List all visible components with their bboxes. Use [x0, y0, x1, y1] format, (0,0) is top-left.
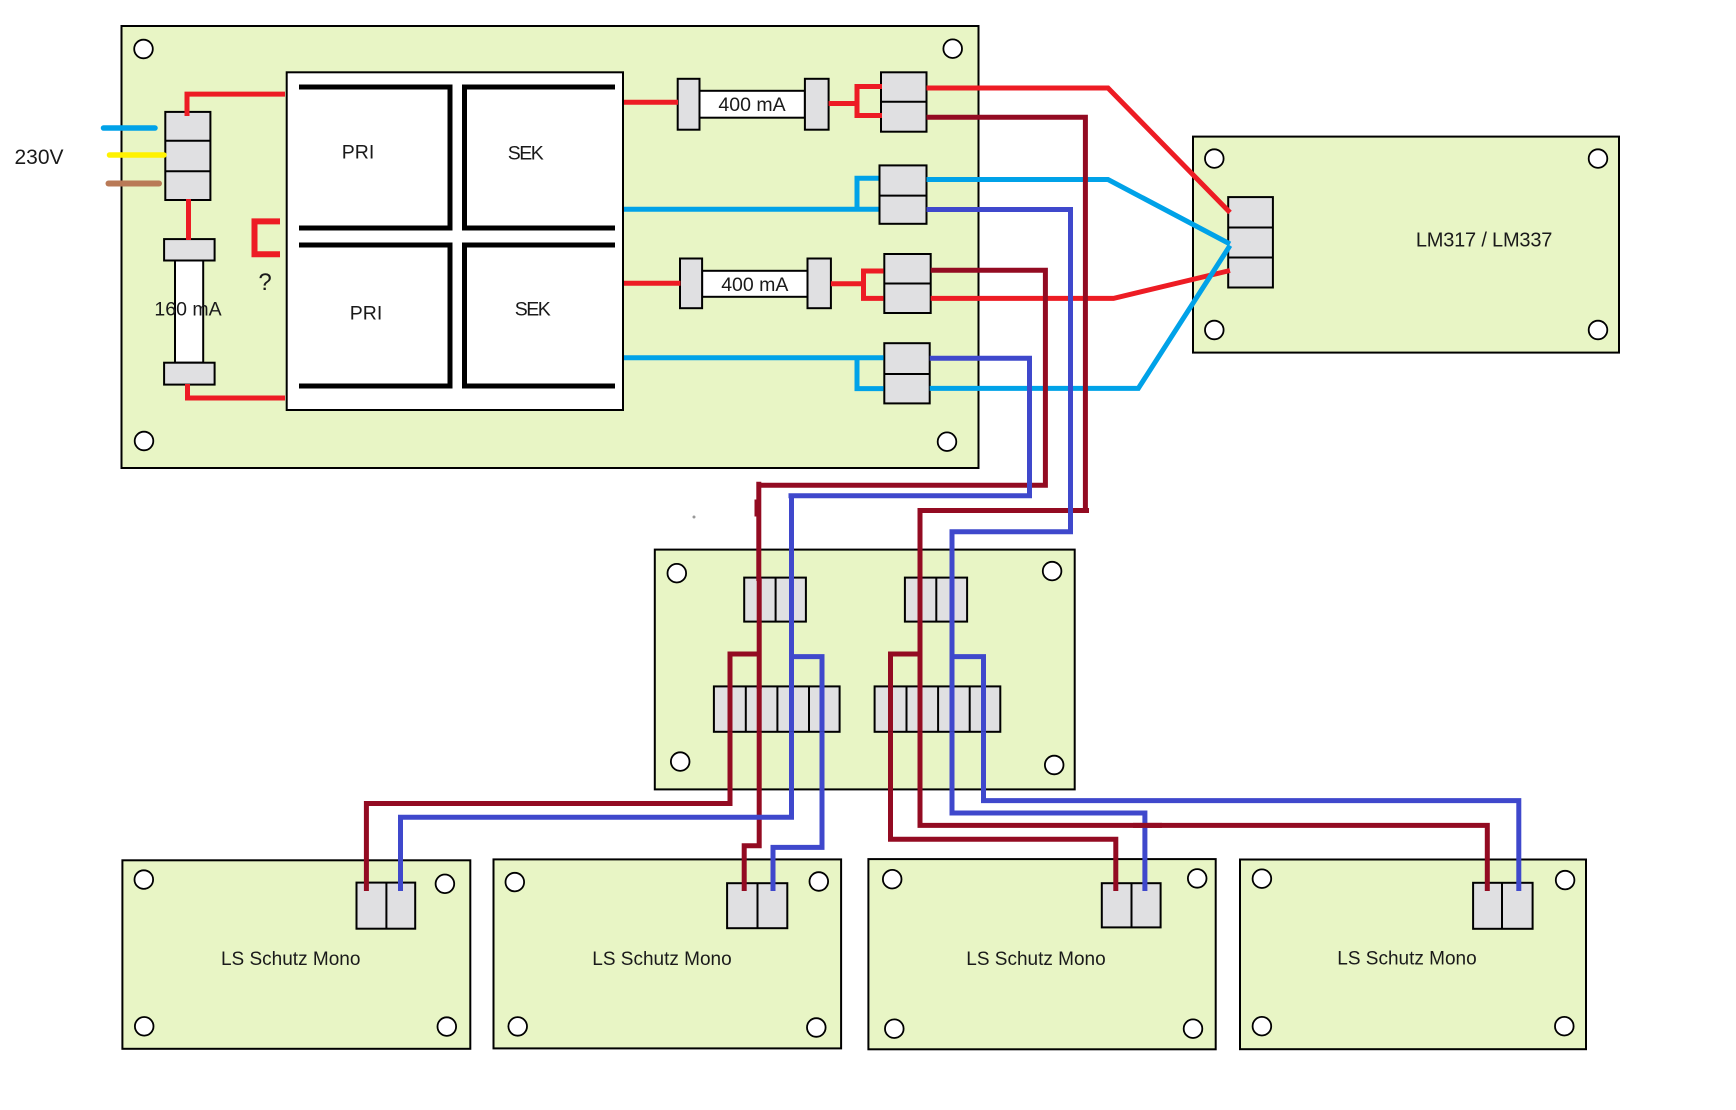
svg-text:LS Schutz Mono: LS Schutz Mono	[592, 949, 731, 970]
svg-text:LS Schutz Mono: LS Schutz Mono	[221, 949, 360, 970]
svg-text:400 mA: 400 mA	[721, 274, 788, 296]
svg-text:PRI: PRI	[342, 142, 375, 164]
svg-text:LM317 / LM337: LM317 / LM337	[1416, 230, 1552, 252]
svg-text:160 mA: 160 mA	[154, 299, 221, 321]
svg-text:SEK: SEK	[508, 143, 544, 165]
svg-text:LS Schutz Mono: LS Schutz Mono	[1337, 949, 1476, 970]
svg-text:PRI: PRI	[350, 303, 383, 325]
svg-text:SEK: SEK	[515, 299, 551, 321]
svg-text:LS Schutz Mono: LS Schutz Mono	[966, 949, 1105, 970]
svg-text:?: ?	[258, 269, 271, 296]
svg-text:230V: 230V	[14, 146, 63, 169]
svg-text:400 mA: 400 mA	[718, 94, 785, 116]
